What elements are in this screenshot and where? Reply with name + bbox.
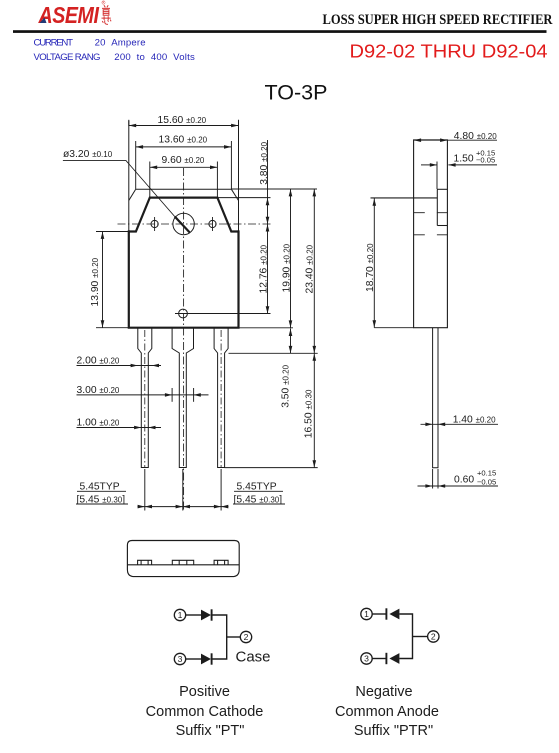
dim 3.00 bbox=[77, 388, 209, 402]
dim 1.40 bbox=[421, 423, 499, 425]
svg-text:3.50 ±0.20: 3.50 ±0.20 bbox=[281, 364, 292, 407]
svg-text:1: 1 bbox=[364, 609, 369, 619]
wire D3 to node bbox=[399, 614, 412, 637]
ext line body bottom right bbox=[239, 327, 294, 329]
small hole right bbox=[209, 220, 216, 227]
heatsink tab outline (thick) bbox=[129, 198, 239, 232]
wire pin1 to D1 bbox=[186, 614, 201, 616]
ext line 9.60 right bbox=[216, 162, 218, 198]
bottom pilot hole bbox=[179, 309, 188, 318]
logo ASEMI bbox=[38, 0, 106, 28]
svg-text:3: 3 bbox=[364, 654, 369, 664]
ext line top face right bbox=[231, 188, 317, 190]
dim line 23.40 bbox=[313, 189, 315, 353]
svg-text:1.50: 1.50 bbox=[454, 154, 474, 165]
svg-text:ø3.20 ±0.10: ø3.20 ±0.10 bbox=[63, 149, 113, 160]
dim line 19.90 bbox=[290, 189, 292, 328]
ext line tab top right bbox=[218, 197, 271, 199]
svg-text:9.60 ±0.20: 9.60 ±0.20 bbox=[162, 155, 205, 166]
ext line 15.60 up right bbox=[238, 120, 240, 126]
svg-text:CURRENT: CURRENT bbox=[34, 38, 74, 49]
svg-text:0.60: 0.60 bbox=[454, 475, 474, 486]
dim 18.70 bbox=[374, 198, 413, 327]
diode D2 bbox=[201, 653, 212, 664]
svg-text:2: 2 bbox=[431, 632, 436, 642]
svg-text:Case: Case bbox=[236, 649, 271, 666]
wire node to pin2 bbox=[413, 636, 428, 638]
pin 1 terminal (right schematic) bbox=[361, 608, 372, 619]
svg-text:15.60 ±0.20: 15.60 ±0.20 bbox=[158, 115, 207, 126]
ext line pin3 bbox=[220, 469, 222, 511]
pin 1 centerline bbox=[144, 330, 146, 468]
pin 1 terminal (left schematic) bbox=[174, 609, 185, 620]
ext line 13.60 left bbox=[135, 141, 137, 189]
svg-text:LOSS SUPER HIGH SPEED RECTIFIE: LOSS SUPER HIGH SPEED RECTIFIER bbox=[323, 12, 553, 28]
small hole right tick bbox=[212, 217, 214, 231]
dim line 3.50 bbox=[290, 329, 292, 354]
body top face (13.60 wide) bbox=[136, 188, 232, 190]
svg-text:+0.15: +0.15 bbox=[477, 469, 496, 478]
wire D1 to node bbox=[212, 615, 227, 637]
ext line pin2 bbox=[182, 469, 184, 511]
svg-text:−0.05: −0.05 bbox=[476, 155, 495, 164]
dim 4.80 bbox=[414, 139, 497, 141]
bottom view pin 2 section bbox=[172, 560, 193, 565]
wire pin3 to D2 bbox=[186, 658, 201, 660]
svg-text:2.00 ±0.20: 2.00 ±0.20 bbox=[77, 356, 120, 367]
diode D1 bbox=[201, 609, 212, 620]
svg-text:Suffix "PT": Suffix "PT" bbox=[176, 723, 245, 739]
svg-text:1.40 ±0.20: 1.40 ±0.20 bbox=[453, 415, 496, 426]
pin 2 terminal (right schematic) bbox=[428, 631, 439, 642]
wire D4 to node bbox=[399, 637, 412, 659]
svg-text:1: 1 bbox=[178, 610, 183, 620]
hole hidden line bottom bbox=[414, 234, 448, 236]
dim 1.00 bbox=[77, 427, 162, 429]
svg-text:−0.05: −0.05 bbox=[477, 478, 496, 487]
ext line pilot hole right bbox=[175, 313, 271, 315]
svg-text:3.80 ±0.20: 3.80 ±0.20 bbox=[259, 141, 270, 184]
svg-text:3.00 ±0.20: 3.00 ±0.20 bbox=[77, 385, 120, 396]
svg-text:4.80 ±0.20: 4.80 ±0.20 bbox=[454, 131, 497, 142]
dim line 5.45 bbox=[138, 506, 229, 508]
dim line 9.60 bbox=[150, 166, 218, 168]
ext line step left bbox=[96, 231, 129, 233]
svg-text:1.00 ±0.20: 1.00 ±0.20 bbox=[77, 418, 120, 429]
wire node to pin2 bbox=[227, 636, 241, 638]
ext line pin1 bbox=[144, 469, 146, 511]
ext line 15.60 up left bbox=[128, 120, 130, 126]
mounting hole (ø3.20) bbox=[173, 213, 194, 234]
dim 1.50 bbox=[421, 162, 497, 190]
pin 2 terminal / case (left schematic) bbox=[240, 631, 251, 642]
vertical centerline bbox=[183, 168, 185, 510]
pin 3 terminal (right schematic) bbox=[361, 653, 372, 664]
dim 0.60 bbox=[418, 469, 499, 489]
svg-text:13.90 ±0.20: 13.90 ±0.20 bbox=[90, 257, 101, 306]
wire D2 to node bbox=[212, 637, 227, 659]
svg-text:ASEMI: ASEMI bbox=[38, 2, 100, 28]
logo CJK mark (首芯 approximated) bbox=[102, 5, 112, 24]
wire pin1 to D3 bbox=[372, 613, 386, 615]
small hole left tick bbox=[154, 217, 156, 231]
body lower outline (thick) bbox=[129, 230, 239, 327]
svg-text:200 to 400 Volts: 200 to 400 Volts bbox=[114, 52, 195, 63]
bottom view pin 3 section bbox=[214, 560, 228, 565]
svg-text:20 Ampere: 20 Ampere bbox=[95, 38, 146, 49]
pin 2 outline bbox=[172, 328, 193, 468]
svg-text:VOLTAGE RANG: VOLTAGE RANG bbox=[34, 52, 101, 63]
body side thin right bbox=[238, 121, 240, 232]
svg-text:13.60 ±0.20: 13.60 ±0.20 bbox=[159, 135, 208, 146]
ext line pin tip right bbox=[225, 467, 318, 469]
ext line 13.60 right bbox=[230, 141, 232, 189]
dim line 15.60 bbox=[129, 125, 239, 127]
pin 3 terminal (left schematic) bbox=[174, 653, 185, 664]
leader line ø3.20 bbox=[63, 161, 175, 217]
svg-text:Common Anode: Common Anode bbox=[335, 704, 439, 720]
pin 1 outline bbox=[138, 328, 152, 468]
bottom view pin 1 section bbox=[138, 560, 152, 565]
svg-text:16.50 ±0.30: 16.50 ±0.30 bbox=[304, 389, 315, 438]
dim 2.00 bbox=[77, 365, 162, 367]
body chamfer top-left bbox=[129, 189, 136, 200]
tab recess bottom bbox=[437, 225, 447, 227]
svg-text:12.76 ±0.20: 12.76 ±0.20 bbox=[258, 244, 269, 293]
svg-text:Positive: Positive bbox=[179, 684, 230, 700]
diode D3 bbox=[386, 608, 399, 619]
body chamfer top-right bbox=[231, 189, 238, 200]
svg-text:Suffix "PTR": Suffix "PTR" bbox=[354, 723, 433, 739]
small hole left bbox=[151, 220, 158, 227]
bottom view parting line bbox=[127, 564, 239, 566]
svg-text:3: 3 bbox=[178, 654, 183, 664]
tab recess left bbox=[436, 189, 438, 225]
wire pin3 to D4 bbox=[372, 658, 386, 660]
svg-text:23.40 ±0.20: 23.40 ±0.20 bbox=[304, 244, 315, 293]
header rule bbox=[13, 30, 547, 33]
pin 3 centerline bbox=[220, 330, 222, 468]
body side thin left bbox=[128, 121, 130, 232]
dim line 13.90 bbox=[102, 232, 104, 328]
svg-text:19.90 ±0.20: 19.90 ±0.20 bbox=[281, 243, 292, 292]
tab recess top bbox=[437, 188, 447, 190]
bottom view outline bbox=[127, 541, 239, 577]
dim line 16.50 bbox=[313, 353, 315, 467]
side pin outline bbox=[433, 328, 438, 468]
dim line 13.60 bbox=[136, 146, 232, 148]
hole hidden line top bbox=[414, 212, 448, 214]
dim line 3.80 bbox=[267, 140, 269, 224]
pin 3 outline bbox=[214, 328, 228, 468]
svg-text:Negative: Negative bbox=[355, 684, 412, 700]
svg-text:D92-02 THRU D92-04: D92-02 THRU D92-04 bbox=[350, 40, 548, 61]
ext line 9.60 left bbox=[149, 162, 151, 198]
tab construction line bbox=[371, 197, 438, 199]
svg-text:®: ® bbox=[102, 0, 106, 7]
ext line bottom left bbox=[96, 327, 129, 329]
dim line 12.76 bbox=[267, 224, 269, 314]
svg-text:18.70 ±0.20: 18.70 ±0.20 bbox=[365, 243, 376, 292]
svg-text:2: 2 bbox=[244, 632, 249, 642]
diode D4 bbox=[386, 653, 399, 664]
svg-text:TO-3P: TO-3P bbox=[265, 80, 328, 104]
horizontal centerline bbox=[118, 223, 271, 225]
svg-text:Common Cathode: Common Cathode bbox=[146, 704, 264, 720]
ext line taper right bbox=[229, 352, 318, 354]
leader thick segment through hole bbox=[175, 217, 190, 233]
side body outline bbox=[414, 140, 448, 328]
